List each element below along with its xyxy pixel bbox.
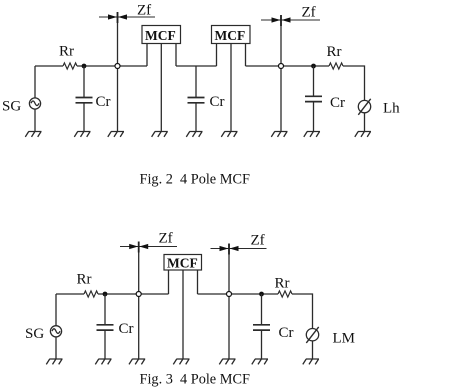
svg-text:Rr: Rr bbox=[59, 44, 74, 60]
ground below SG (Fig3) bbox=[46, 359, 62, 364]
source SG (Fig2) bbox=[29, 98, 40, 109]
ground below MCF U2 bbox=[221, 132, 237, 137]
MCF box (Fig3) bbox=[164, 255, 202, 271]
MCF pin 1 (left, Fig3) bbox=[168, 270, 170, 294]
wire: LM to ground (Fig3) bbox=[312, 341, 314, 359]
dimension line Zf (Fig2 right) bbox=[261, 15, 320, 26]
ground below Zf node (Fig3 left) bbox=[129, 359, 145, 364]
Zf coupling node wire (Fig2 right) bbox=[280, 16, 282, 132]
svg-text:Cr: Cr bbox=[279, 325, 294, 341]
svg-text:Zf: Zf bbox=[251, 233, 265, 249]
Zf coupling node wire (Fig2 left) bbox=[117, 13, 119, 132]
svg-text:Zf: Zf bbox=[302, 5, 316, 21]
MCF U2 pin 1 (left) bbox=[216, 44, 218, 67]
svg-text:MCF: MCF bbox=[145, 28, 176, 43]
capacitor Cr (Fig3 left) bbox=[97, 294, 114, 359]
wire: MCF right pin to output (Fig3) bbox=[198, 293, 279, 295]
capacitor Cr (Fig2 right) bbox=[305, 66, 322, 132]
svg-text:SG: SG bbox=[25, 326, 44, 342]
ground below Zf node (Fig2 right) bbox=[271, 132, 287, 137]
capacitor Cr (Fig2 middle) bbox=[188, 66, 205, 132]
level meter Lh (Fig2) bbox=[358, 99, 370, 115]
junction dot (Fig2 right) bbox=[311, 64, 316, 69]
wire: SG to ground (Fig3) bbox=[55, 337, 57, 359]
ground below MCF U1 bbox=[152, 132, 168, 137]
ground below LM (Fig3) bbox=[303, 359, 319, 364]
wire: SG branch vertical (Fig3) bbox=[55, 294, 57, 326]
ground below Cr (Fig3 left) bbox=[95, 359, 111, 364]
wire: SG branch vertical (Fig2) bbox=[34, 66, 36, 98]
wire: resistor to level meter Lh (Fig2) bbox=[343, 66, 365, 100]
source SG (Fig3) bbox=[50, 326, 61, 337]
svg-text:SG: SG bbox=[2, 99, 21, 115]
svg-text:MCF: MCF bbox=[167, 256, 198, 271]
ground below Lh (Fig2) bbox=[355, 132, 371, 137]
dimension line Zf (Fig3 right) bbox=[211, 244, 267, 255]
MCF U1 pin 1 (left) bbox=[146, 44, 148, 67]
dimension line Zf (Fig2 left) bbox=[99, 12, 155, 23]
level meter LM (Fig3) bbox=[306, 327, 318, 343]
ground below Cr (Fig2 right) bbox=[304, 132, 320, 137]
svg-text:Zf: Zf bbox=[159, 231, 173, 247]
ground below Zf node (Fig2 left) bbox=[108, 132, 124, 137]
wire: U2 right pin to output resistor (Fig2) bbox=[246, 65, 330, 67]
junction dot (Fig3 left) bbox=[103, 292, 108, 297]
node open circle (Fig2 right) bbox=[279, 64, 284, 69]
resistor Rr (Fig3 right) bbox=[278, 291, 292, 297]
svg-text:Fig. 2 4 Pole MCF: Fig. 2 4 Pole MCF bbox=[140, 172, 250, 188]
capacitor Cr (Fig2 left) bbox=[76, 66, 93, 132]
wire: Lh to ground (Fig2) bbox=[364, 113, 366, 132]
junction dot (Fig3 right) bbox=[259, 292, 264, 297]
node open circle (Fig3 right) bbox=[227, 292, 232, 297]
MCF U2 box (Fig2) bbox=[212, 26, 251, 44]
svg-text:MCF: MCF bbox=[215, 28, 246, 43]
ground below MCF (Fig3) bbox=[173, 359, 189, 364]
svg-text:Lh: Lh bbox=[383, 101, 400, 117]
MCF U1 pin 2 (middle, to ground) bbox=[160, 44, 162, 132]
svg-text:Cr: Cr bbox=[119, 321, 134, 337]
svg-text:Cr: Cr bbox=[330, 95, 345, 111]
svg-text:Cr: Cr bbox=[210, 94, 225, 110]
MCF U1 box (Fig2) bbox=[142, 26, 181, 44]
Zf coupling node wire (Fig3 left) bbox=[138, 242, 140, 359]
MCF U2 pin 2 (middle, to ground) bbox=[230, 44, 232, 132]
resistor Rr (Fig2 left) bbox=[63, 63, 77, 69]
svg-text:Cr: Cr bbox=[96, 94, 111, 110]
resistor Rr (Fig2 right) bbox=[329, 63, 343, 69]
svg-text:Rr: Rr bbox=[275, 276, 290, 292]
svg-text:LM: LM bbox=[333, 331, 356, 347]
svg-text:Rr: Rr bbox=[77, 272, 92, 288]
ground below Cr (Fig2 left) bbox=[74, 132, 90, 137]
wire: SG to resistor Rr (Fig2 left) bbox=[35, 65, 63, 67]
dimension line Zf (Fig3 left) bbox=[120, 242, 177, 253]
wire: U1 right pin to U2 left pin (Fig2) bbox=[176, 65, 217, 67]
Zf coupling node wire (Fig3 right) bbox=[228, 244, 230, 359]
svg-text:Rr: Rr bbox=[327, 44, 342, 60]
wire: SG to ground (Fig2) bbox=[34, 109, 36, 131]
MCF U1 pin 3 (right) bbox=[175, 44, 177, 67]
svg-text:Zf: Zf bbox=[137, 3, 151, 19]
MCF pin 3 (right, Fig3) bbox=[197, 270, 199, 294]
junction dot (Fig2 left) bbox=[82, 64, 87, 69]
svg-text:Fig. 3 4 Pole MCF: Fig. 3 4 Pole MCF bbox=[140, 371, 250, 387]
wire: resistor to level meter LM (Fig3) bbox=[292, 294, 313, 329]
wire: resistor to MCF U1 left pin (Fig2) bbox=[77, 65, 147, 67]
MCF U2 pin 3 (right) bbox=[245, 44, 247, 67]
node open circle (Fig3 left) bbox=[136, 292, 141, 297]
capacitor Cr (Fig3 right) bbox=[253, 294, 270, 359]
ground below Cr (Fig3 right) bbox=[252, 359, 268, 364]
MCF pin 2 (middle, to ground, Fig3) bbox=[182, 270, 184, 359]
node open circle (Fig2 left) bbox=[115, 64, 120, 69]
wire: resistor to MCF left pin (Fig3) bbox=[98, 293, 169, 295]
ground below Cr (Fig2 middle) bbox=[186, 132, 202, 137]
ground below Zf node (Fig3 right) bbox=[219, 359, 235, 364]
ground below SG (Fig2) bbox=[25, 132, 41, 137]
resistor Rr (Fig3 left) bbox=[84, 291, 98, 297]
wire: SG to resistor Rr (Fig3 left) bbox=[56, 293, 84, 295]
